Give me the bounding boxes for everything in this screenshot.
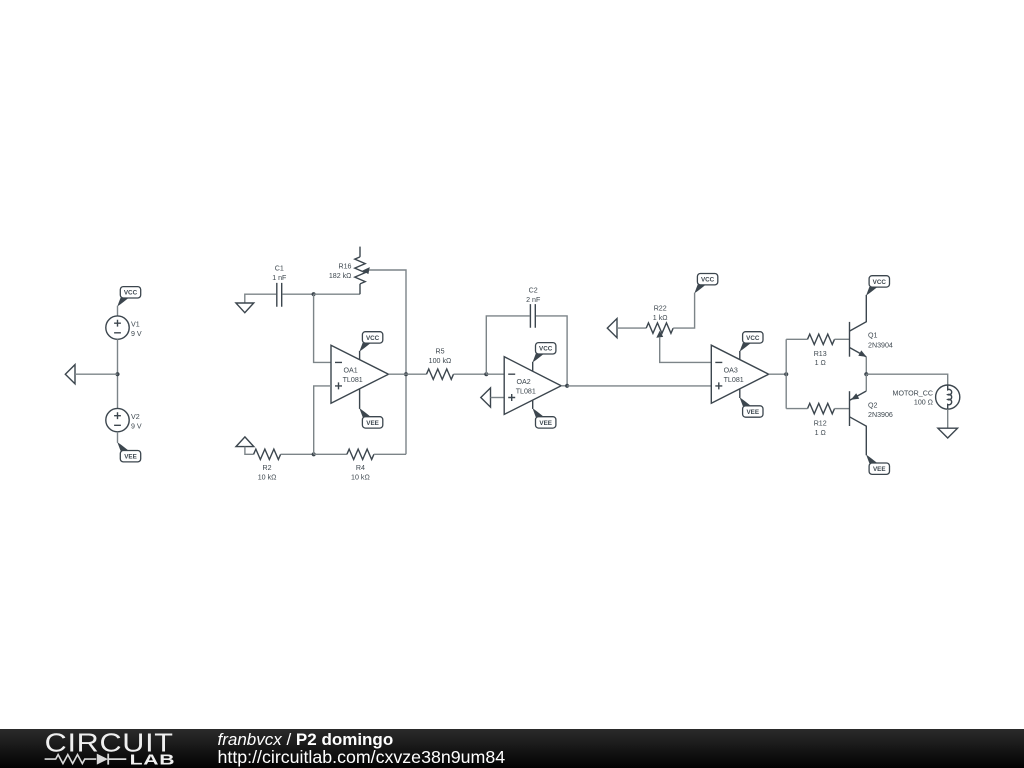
capacitor C1: [277, 283, 282, 307]
svg-text:OA3: OA3: [724, 367, 738, 375]
svg-text:VEE: VEE: [873, 466, 886, 473]
svg-text:2 nF: 2 nF: [526, 296, 541, 304]
svg-text:TL081: TL081: [724, 376, 744, 384]
label R5 value 100 k&#937;: [429, 357, 452, 365]
net flag VCC at Q1 collector: [866, 276, 889, 296]
svg-text:10 kΩ: 10 kΩ: [351, 474, 370, 482]
svg-text:MOTOR_CC: MOTOR_CC: [893, 389, 933, 397]
voltage source V2: [106, 408, 129, 431]
label MOTOR_CC name: [893, 389, 933, 397]
svg-text:OA1: OA1: [344, 367, 358, 375]
wire node C up to C2 left: [486, 316, 529, 374]
junction supply midpoint: [115, 372, 119, 376]
motor MOTOR_CC 100 ohm: [936, 385, 960, 409]
wire R5 to node C: [454, 373, 487, 375]
net flag VCC at R22: [694, 274, 717, 294]
op-amp OA1 TL081: [331, 345, 389, 403]
label OA1 name: [344, 367, 358, 375]
capacitor C2: [530, 304, 535, 328]
net flag VCC at OA3: [740, 332, 763, 352]
ground reference flag left of supplies: [65, 365, 75, 384]
label R13 name: [814, 350, 827, 358]
svg-text:R12: R12: [814, 420, 827, 428]
junction node C R5/C2/OA2 inverting: [484, 372, 488, 376]
footer url text: [218, 747, 506, 767]
svg-text:VCC: VCC: [746, 335, 760, 342]
op-amp OA1 VCC pin: [359, 351, 361, 360]
svg-text:1 kΩ: 1 kΩ: [653, 314, 668, 322]
wire C1 to node A: [282, 293, 313, 295]
label V1 value 9 V: [131, 330, 142, 338]
wire R22 right to VCC: [673, 293, 694, 328]
wire V1 minus to V2 plus: [117, 339, 119, 408]
wire node B up to OA1 non-inverting input: [314, 386, 331, 454]
footer bar: [0, 729, 1024, 768]
wire base rail vertical: [785, 339, 787, 408]
wire node B to R4: [314, 453, 347, 455]
net flag VEE at V2: [117, 442, 140, 462]
net flag VCC at V1: [117, 287, 140, 307]
label C2 value 2 nF: [526, 296, 541, 304]
wire to R13: [786, 338, 807, 340]
junction OA1 output node: [404, 372, 408, 376]
svg-text:VCC: VCC: [701, 277, 715, 284]
wire R2 to node B: [281, 453, 314, 455]
wire V1 top lead: [117, 306, 119, 316]
potentiometer R16 182k: [355, 247, 370, 295]
svg-text:9 V: 9 V: [131, 330, 142, 338]
label R5 name: [435, 347, 444, 355]
wire R4 to feedback vertical: [374, 453, 406, 455]
junction OA3 output node: [784, 372, 788, 376]
wire node A down to OA1 inverting input: [314, 294, 331, 362]
wire motor to ground: [947, 409, 949, 428]
resistor R5 100k: [427, 369, 454, 379]
op-amp OA2 VEE pin: [532, 400, 534, 409]
label Q1 name: [868, 332, 878, 340]
junction OA2 output node: [565, 384, 569, 388]
wire R22 wiper to OA3 inverting input: [660, 337, 712, 363]
transistor Q2 2N3906 PNP: [850, 391, 867, 455]
svg-text:Q1: Q1: [868, 332, 878, 340]
net flag VCC at OA2: [533, 343, 556, 363]
ground flag at R22: [607, 319, 617, 338]
svg-text:VEE: VEE: [124, 454, 137, 461]
net flag VCC at OA1: [359, 332, 382, 352]
footer title text: [218, 730, 394, 749]
op-amp OA3 VEE pin: [739, 389, 741, 398]
label R22 value 1 k&#937;: [653, 314, 668, 322]
svg-text:2N3906: 2N3906: [868, 411, 893, 419]
wire Q2 emitter to output node: [865, 374, 867, 391]
potentiometer R22 1k: [646, 323, 673, 338]
junction node A C1/R16/OA1 inverting: [312, 292, 316, 296]
label C1 value 1 nF: [272, 274, 287, 282]
label V2 value 9 V: [131, 423, 142, 431]
label R12 name: [814, 420, 827, 428]
label Q2 name: [868, 401, 878, 409]
net flag VEE at OA3: [740, 397, 763, 417]
wire output node to motor: [866, 374, 947, 385]
wire OA2 output: [561, 385, 567, 387]
junction node B R2/R4/OA1 non-inverting: [312, 452, 316, 456]
svg-text:1 Ω: 1 Ω: [815, 359, 826, 367]
label R4 name: [356, 464, 365, 472]
wire R13 to Q1 base: [835, 338, 850, 340]
ground flag at C1 input: [236, 303, 254, 313]
svg-text:2N3904: 2N3904: [868, 341, 893, 349]
label R22 name: [654, 305, 667, 313]
svg-text:10 kΩ: 10 kΩ: [258, 474, 277, 482]
wire OA1 output: [389, 373, 427, 375]
svg-text:C1: C1: [275, 265, 284, 273]
svg-text:1 Ω: 1 Ω: [815, 429, 826, 437]
label V1 name: [131, 321, 140, 329]
label OA2 part TL081: [516, 388, 536, 396]
wire node A to R16 bottom: [314, 293, 360, 295]
wire OA2 output to OA3 non-inverting input: [567, 385, 711, 387]
label Q2 part 2N3906: [868, 411, 893, 419]
logo LAB wordmark: [130, 752, 176, 768]
svg-text:LAB: LAB: [130, 752, 176, 768]
label OA1 part TL081: [343, 376, 363, 384]
svg-text:R2: R2: [263, 464, 272, 472]
svg-text:VCC: VCC: [539, 346, 553, 353]
net flag VEE at Q2 collector: [866, 455, 889, 475]
op-amp OA2 VCC pin: [532, 362, 534, 372]
label R2 name: [263, 464, 272, 472]
label OA3 name: [724, 367, 738, 375]
transistor Q1 2N3904 NPN: [850, 295, 867, 357]
resistor R13 1 ohm: [808, 334, 835, 344]
logo resistor-diode glyph: [45, 754, 127, 765]
label OA3 part TL081: [724, 376, 744, 384]
wire to R12: [786, 408, 807, 410]
svg-text:C2: C2: [529, 287, 538, 295]
op-amp OA1 VEE pin: [359, 389, 361, 409]
svg-text:R22: R22: [654, 305, 667, 313]
svg-text:VEE: VEE: [366, 420, 379, 427]
ground flag below motor: [938, 428, 958, 438]
wire R16 wiper to feedback: [369, 270, 406, 454]
label C1 name: [275, 265, 284, 273]
net flag VEE at OA1: [359, 408, 382, 428]
svg-text:VCC: VCC: [873, 279, 887, 286]
svg-text:100 kΩ: 100 kΩ: [429, 357, 452, 365]
svg-text:V2: V2: [131, 413, 140, 421]
wire ground stem to C1: [245, 294, 276, 303]
op-amp OA3 TL081: [711, 345, 768, 403]
svg-text:R5: R5: [435, 347, 444, 355]
svg-text:182 kΩ: 182 kΩ: [329, 272, 352, 280]
svg-text:9 V: 9 V: [131, 423, 142, 431]
wire node C to OA2 inverting input: [486, 373, 504, 375]
svg-text:1 nF: 1 nF: [272, 274, 287, 282]
label R16 name: [338, 263, 351, 271]
wire R12 to Q2 base: [835, 408, 850, 410]
wire ground to R22: [617, 327, 646, 329]
wire OA3 output: [769, 373, 787, 375]
label OA2 name: [517, 378, 531, 386]
svg-text:VCC: VCC: [124, 290, 138, 297]
svg-text:R4: R4: [356, 464, 365, 472]
label R13 value 1 ohm: [815, 359, 826, 367]
net flag VEE at OA2: [533, 408, 556, 428]
svg-text:VEE: VEE: [539, 420, 552, 427]
svg-text:V1: V1: [131, 321, 140, 329]
svg-text:TL081: TL081: [343, 376, 363, 384]
svg-text:http://circuitlab.com/cxvze38n: http://circuitlab.com/cxvze38n9um84: [218, 747, 506, 767]
wire C2 right to OA2 output node: [536, 316, 567, 386]
voltage source V1: [106, 316, 129, 339]
logo CIRCUIT wordmark: [45, 729, 174, 757]
wire ground stem to R2: [245, 447, 254, 455]
svg-text:Q2: Q2: [868, 401, 878, 409]
svg-text:OA2: OA2: [517, 378, 531, 386]
wire V2 bottom lead: [117, 432, 119, 443]
label R12 value 1 ohm: [815, 429, 826, 437]
svg-text:R13: R13: [814, 350, 827, 358]
label R4 value 10 k&#937;: [351, 474, 370, 482]
resistor R2 10k: [254, 449, 281, 459]
label R2 value 10 k&#937;: [258, 474, 277, 482]
label V2 name: [131, 413, 140, 421]
svg-text:VCC: VCC: [366, 335, 380, 342]
svg-text:R16: R16: [338, 263, 351, 271]
label C2 name: [529, 287, 538, 295]
wire Q1 emitter to output node: [865, 357, 867, 374]
resistor R12 1 ohm: [808, 403, 835, 413]
resistor R4 10k: [347, 449, 374, 459]
svg-text:TL081: TL081: [516, 388, 536, 396]
op-amp OA3 VCC pin: [739, 351, 741, 360]
wire ground to OA2 non-inverting input: [491, 397, 505, 399]
ground flag above R2: [236, 437, 254, 447]
label Q1 part 2N3904: [868, 341, 893, 349]
junction output node emitters: [864, 372, 868, 376]
svg-text:100 Ω: 100 Ω: [914, 399, 933, 407]
label R16 value 182 k&#937;: [329, 272, 352, 280]
op-amp OA2 TL081: [504, 357, 561, 415]
ground flag at OA2 non-inverting: [481, 388, 491, 407]
wire ground to supply midpoint: [75, 373, 118, 375]
svg-text:VEE: VEE: [746, 409, 759, 416]
label MOTOR_CC value 100 ohm: [914, 399, 933, 407]
